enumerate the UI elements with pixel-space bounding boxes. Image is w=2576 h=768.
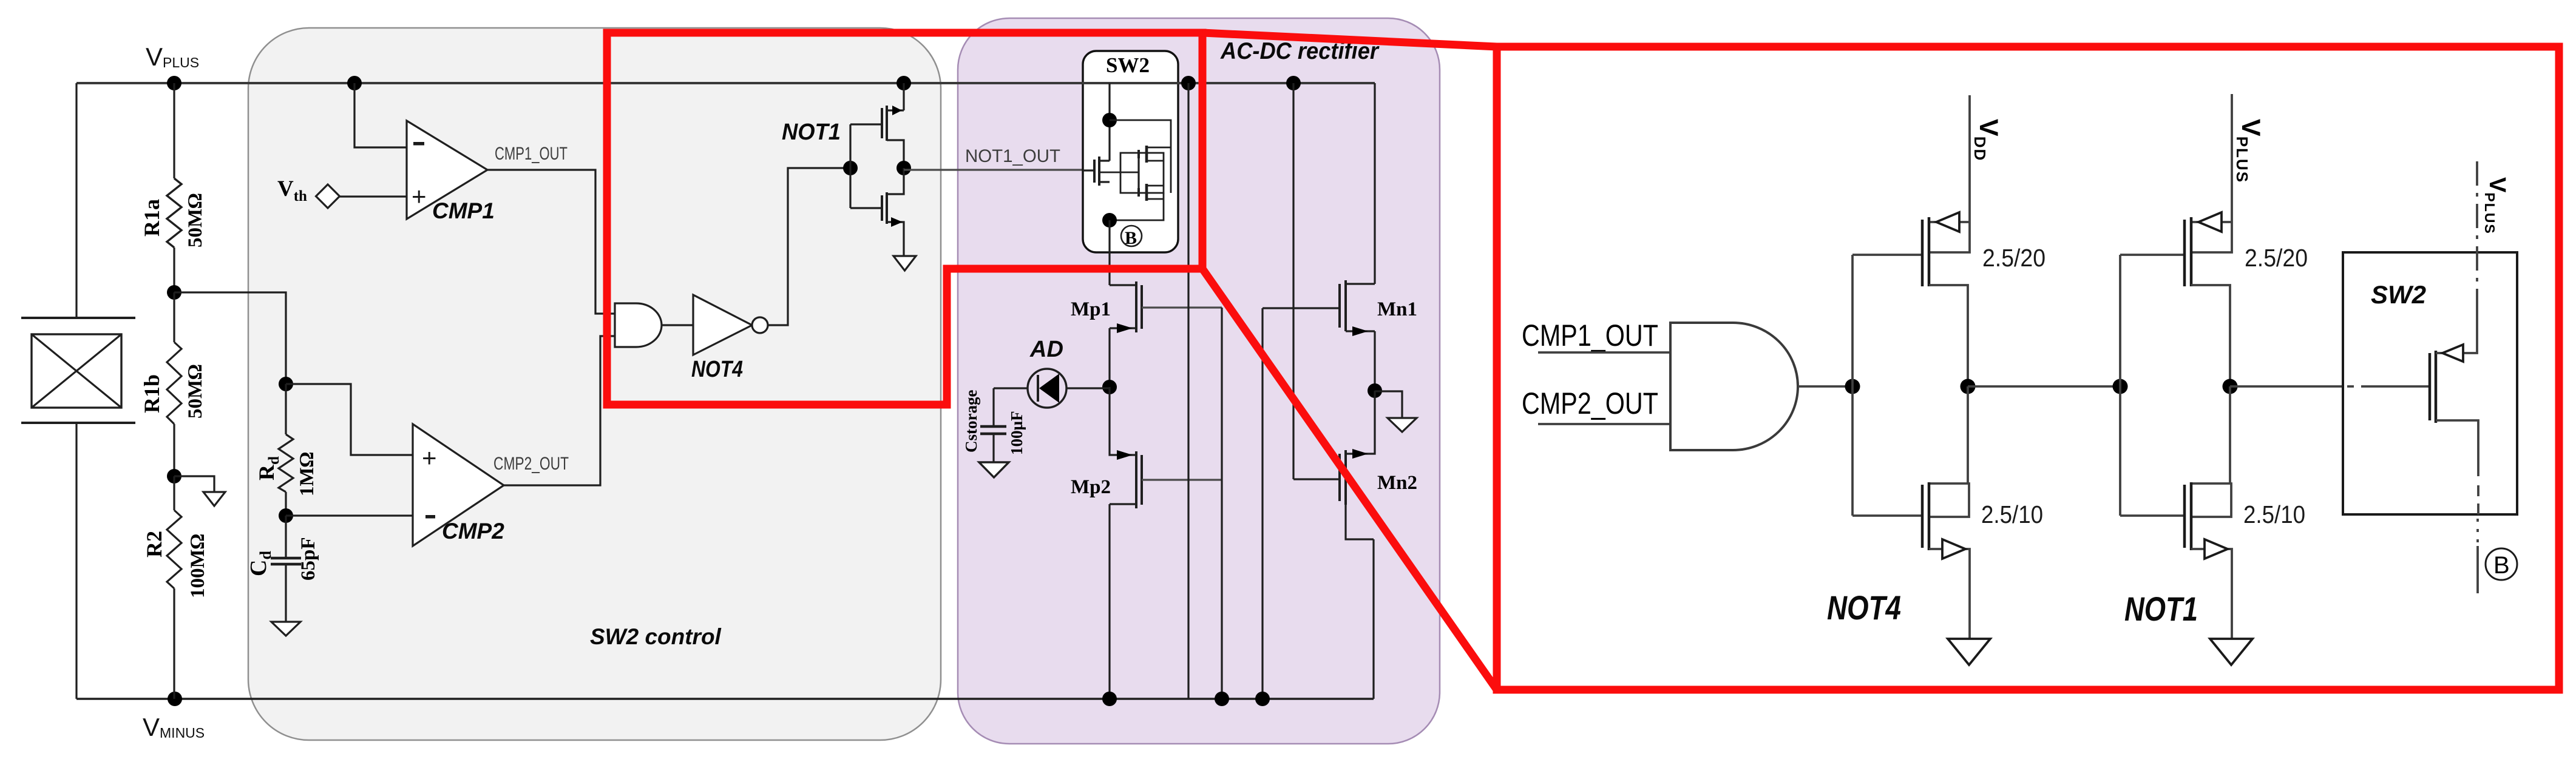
svg-text:100MΩ: 100MΩ: [187, 534, 209, 598]
ground Mn mid: [1388, 418, 1417, 432]
svg-text:2.5/20: 2.5/20: [2245, 244, 2308, 272]
node Rd bottom: [279, 508, 293, 523]
wire junction to CMP2 plus riser: [174, 292, 286, 384]
wire transducer top leg: [75, 83, 77, 318]
SW2 bulk network wires: [1099, 120, 1171, 220]
AND gate zoom: [1670, 323, 1798, 450]
node V_PLUS: [167, 76, 181, 90]
capacitor Cd: [271, 516, 301, 622]
node NOT1 input: [2113, 379, 2128, 394]
wire SW2 gate dashdot: [2347, 385, 2430, 388]
piezo transducer: [21, 318, 135, 423]
red callout diagonal top: [1202, 33, 1497, 47]
node R1b-R2: [167, 469, 181, 483]
wire NOT1 gate rail: [849, 124, 851, 208]
wire Mn2 gate column: [1292, 83, 1294, 479]
ground Cd: [271, 622, 300, 636]
wire node to ground stub: [1375, 391, 1402, 418]
svg-text:CMP2_OUT: CMP2_OUT: [1522, 386, 1658, 420]
red callout diagonal bottom: [1202, 269, 1497, 690]
svg-text:NOT4: NOT4: [1827, 588, 1901, 627]
transistor NOT1 NMOS: [850, 168, 904, 255]
svg-text:NOT1_OUT: NOT1_OUT: [965, 146, 1060, 166]
svg-text:R2: R2: [142, 531, 166, 557]
wire Vth to CMP1 plus: [339, 195, 407, 197]
node NOT1 supply tap: [897, 76, 911, 90]
svg-text:100µF: 100µF: [1008, 411, 1026, 455]
svg-text:65pF: 65pF: [297, 537, 319, 581]
node NOT1 output: [897, 161, 911, 175]
wire Mn1 gate rail: [1261, 308, 1263, 699]
svg-text:Mp2: Mp2: [1071, 476, 1111, 498]
transistor SW2 zoom: [2430, 309, 2478, 461]
node SW2 source: [1102, 213, 1117, 227]
svg-text:AD: AD: [1029, 337, 1063, 362]
node R1a-R1b: [167, 285, 181, 300]
wire Mp1 to node: [1108, 328, 1110, 387]
wire Mn1 drain column: [1374, 83, 1375, 284]
wire stub to ground arrow: [174, 476, 214, 492]
svg-text:CMP2: CMP2: [442, 519, 504, 544]
node NOT1 output: [2223, 379, 2238, 394]
wire AND input A: [1538, 351, 1670, 354]
svg-text:SW2 control: SW2 control: [590, 624, 722, 649]
wire AND output: [1798, 385, 1852, 388]
node Rd top: [279, 377, 293, 391]
diode AD: [994, 369, 1110, 408]
node rectifier VPLUS tap: [1181, 76, 1196, 90]
switch SW2 zoom box: [2343, 252, 2517, 514]
wire VPLUS drop column: [1187, 83, 1189, 699]
wire CMP2 output to AND input B: [504, 336, 615, 485]
svg-text:Mn2: Mn2: [1377, 472, 1417, 494]
node B terminal zoom: [2486, 548, 2517, 580]
resistor R1b: [167, 292, 181, 476]
wire Mn2 to bottom rail: [1372, 539, 1374, 699]
wire Rd top to CMP2 plus: [286, 384, 413, 455]
wire NOT4 output to NOT1 input: [768, 168, 850, 325]
svg-text:SW2: SW2: [2371, 280, 2426, 309]
wire SW2 to Mp1: [1108, 220, 1110, 285]
svg-text:CMP1: CMP1: [432, 198, 495, 223]
node NOT4 input: [1845, 379, 1860, 394]
AC-DC rectifier block background: [958, 18, 1440, 744]
transistor NOT1 PMOS: [2120, 94, 2232, 386]
transistor NOT4 PMOS: [1852, 95, 1970, 386]
capacitor Cstorage: [980, 388, 1006, 462]
wire top rail through SW2 box: [1082, 82, 1179, 84]
node NOT1 input: [843, 161, 858, 175]
svg-text:NOT4: NOT4: [691, 357, 743, 382]
transistor Mn2: [1293, 391, 1375, 539]
wire NOT1_OUT: [904, 169, 1094, 170]
svg-text:2.5/10: 2.5/10: [1981, 500, 2043, 528]
svg-text:1MΩ: 1MΩ: [296, 452, 318, 496]
SW2 control block background: [248, 28, 941, 740]
svg-text:CMP2_OUT: CMP2_OUT: [493, 454, 569, 474]
node B terminal: [1121, 226, 1142, 248]
svg-text:Mn1: Mn1: [1377, 298, 1417, 320]
node CMP1 minus tap: [347, 76, 362, 90]
transistor SW2 pass device: [1083, 157, 1110, 186]
resistor R1a: [167, 83, 181, 292]
svg-text:B: B: [2493, 552, 2510, 579]
resistor Rd: [279, 384, 293, 516]
svg-text:+: +: [412, 182, 427, 211]
inverter NOT4: [662, 295, 768, 355]
ground NOT1: [893, 256, 916, 271]
svg-text:NOT1: NOT1: [782, 120, 841, 145]
red zoom detail box: [1497, 47, 2559, 690]
node NOT4 output: [1961, 379, 1976, 394]
wire NOT1 out to SW2: [2230, 385, 2342, 388]
ground Cstorage: [979, 462, 1009, 477]
wire V_PLUS top rail: [76, 82, 1375, 84]
wire CMP1 minus input: [354, 83, 407, 147]
wire B dashdot lower: [2477, 461, 2479, 476]
svg-text:Mp1: Mp1: [1071, 298, 1111, 320]
node Mp bottom: [1102, 692, 1117, 706]
node V_MINUS: [168, 692, 182, 706]
transistor Mp1: [1110, 281, 1222, 333]
wire AND input B: [1538, 423, 1670, 425]
node Mn mid: [1368, 383, 1382, 398]
source Vth diamond: [316, 184, 340, 208]
ground arrow at R1b-R2 node: [203, 492, 225, 506]
node Mp gate rail bottom: [1215, 692, 1229, 706]
wire NOT1 gate rail: [2119, 255, 2121, 516]
node Mn2 gate tap: [1286, 76, 1301, 90]
red highlight box around NOT gates and SW2: [607, 33, 1202, 405]
ground NOT4: [1948, 639, 1990, 665]
svg-text:CMP1_OUT: CMP1_OUT: [495, 144, 568, 164]
wire V_MINUS bottom rail: [76, 698, 1374, 699]
transistor Mn1: [1263, 280, 1375, 336]
node storage: [1102, 380, 1117, 394]
wire CMP1 output to AND input A: [487, 170, 615, 314]
svg-text:NOT1: NOT1: [2124, 590, 2198, 628]
resistor R2: [167, 476, 181, 699]
transistor NOT1 NMOS: [2120, 386, 2232, 639]
wire SW2 column upper: [1108, 83, 1110, 161]
svg-text:B: B: [1125, 228, 1137, 248]
node Mn1 gate rail bottom: [1255, 692, 1270, 706]
wire transducer bottom leg: [75, 423, 77, 699]
op-amp CMP2: [413, 424, 504, 546]
transistor NOT1 PMOS: [850, 83, 904, 168]
transistor Mp2: [1110, 387, 1222, 508]
svg-text:50MΩ: 50MΩ: [185, 365, 206, 419]
node SW2 drain: [1102, 113, 1117, 127]
svg-text:CMP1_OUT: CMP1_OUT: [1522, 318, 1658, 352]
svg-text:Cstorage: Cstorage: [962, 390, 980, 453]
wire VPLUS dashdot upper: [2476, 161, 2478, 309]
wire Mp gate rail: [1221, 308, 1222, 699]
svg-text:SW2: SW2: [1106, 53, 1150, 77]
op-amp CMP1: [407, 121, 487, 219]
wire Mn1 to node: [1374, 331, 1375, 391]
wire Mp2 to bottom rail: [1108, 504, 1110, 699]
svg-text:+: +: [422, 443, 437, 472]
wire Rd bottom to CMP2 minus: [286, 514, 413, 516]
wire NOT4 gate rail: [1851, 255, 1854, 516]
wire NOT4 out to NOT1 in: [1968, 385, 2120, 388]
svg-text:2.5/20: 2.5/20: [1982, 244, 2046, 272]
ground NOT1: [2210, 639, 2252, 665]
transistor NOT4 NMOS: [1852, 386, 1970, 639]
svg-text:R1b: R1b: [140, 374, 164, 413]
switch SW2 box: [1083, 51, 1178, 252]
AND gate: [615, 303, 662, 347]
svg-text:R1a: R1a: [140, 199, 164, 237]
svg-text:2.5/10: 2.5/10: [2243, 500, 2305, 528]
svg-text:50MΩ: 50MΩ: [185, 194, 206, 248]
